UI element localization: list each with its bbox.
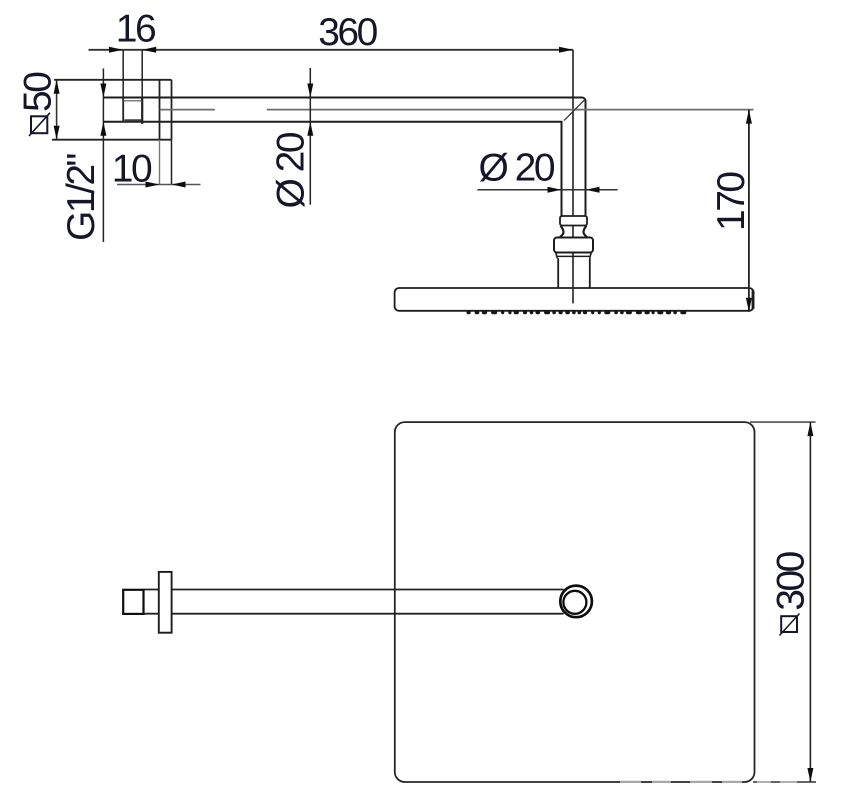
- svg-text:G1/2": G1/2": [60, 153, 103, 241]
- arrow pipe dia20 right: [586, 187, 600, 193]
- head plan outline: [395, 422, 755, 782]
- nipple left face: [122, 98, 124, 122]
- arm centerline dash 2: [267, 109, 754, 111]
- extension line nipple left face: [122, 50, 124, 98]
- nipple inner top line: [123, 100, 142, 102]
- dimension line 16/360: [89, 49, 574, 51]
- svg-text:360: 360: [318, 11, 377, 54]
- arrow 170 bottom: [746, 298, 752, 312]
- arrow dia20 bottom: [307, 122, 313, 136]
- 10 dimension line: [117, 184, 201, 186]
- connector neck left: [560, 226, 564, 238]
- arrow 10 right: [172, 182, 186, 188]
- square symbol for 50: [31, 116, 47, 133]
- plan nipple square end: [123, 590, 143, 614]
- shower head slab side view: [395, 288, 754, 311]
- dia50 dimension line: [56, 80, 58, 140]
- pipe centerline inside head slab: [572, 288, 574, 303]
- connector neck right: [584, 226, 588, 238]
- arrow dia50 top: [54, 80, 60, 94]
- G1/2 dimension line: [102, 69, 104, 243]
- dia300 top extension: [750, 421, 816, 423]
- connector washer line: [557, 255, 590, 257]
- 170 dimension line: [748, 110, 750, 312]
- plan outlet inner circle: [563, 591, 586, 614]
- dia20 pipe dimension line: [477, 189, 617, 191]
- extension line 360 right / pipe centerline vertical: [572, 50, 574, 304]
- arrow dia50 bottom: [54, 126, 60, 140]
- nozzle teeth: [467, 310, 687, 314]
- watermark light patches on bottom edge: [620, 781, 742, 783]
- svg-text:16: 16: [116, 7, 155, 50]
- elbow miter line: [564, 100, 585, 121]
- dia50 bottom extension and flange bottom edge: [52, 139, 172, 141]
- arrow dia20 top: [307, 84, 313, 98]
- dia300 bottom extension: [753, 781, 816, 783]
- arrow 16 right / 360 left: [142, 47, 156, 53]
- svg-text:50: 50: [17, 72, 60, 112]
- arrow 10 left: [146, 182, 160, 188]
- arrow G1/2 bottom: [100, 122, 106, 136]
- plan outlet outer circle: [560, 586, 592, 618]
- flange left face: [159, 80, 161, 140]
- arm tube top edge and pipe right edge: [104, 98, 586, 217]
- arm centerline dash 1: [160, 109, 215, 111]
- flange left face extension gray: [159, 140, 161, 185]
- square symbol for 300: [781, 616, 797, 632]
- dia300 dimension line: [809, 422, 811, 782]
- connector collar: [560, 216, 587, 226]
- svg-text:Ø 20: Ø 20: [479, 146, 555, 189]
- arrow pipe dia20 left: [548, 187, 562, 193]
- dia20 arm dimension line: [309, 68, 311, 205]
- connector neck bottom line: [559, 237, 589, 239]
- arrow 170 top: [746, 110, 752, 124]
- arrow dia300 top: [807, 422, 813, 436]
- nipple right face: [141, 98, 143, 124]
- head slab right end cap thick edge: [752, 291, 755, 310]
- dia50 top extension and flange top edge: [54, 79, 171, 81]
- connector washer sides: [556, 253, 591, 259]
- arm tube bottom edge and pipe left edge: [104, 122, 562, 216]
- svg-text:170: 170: [710, 172, 753, 231]
- arrow 16 left: [109, 47, 123, 53]
- extension line nipple right face upper: [141, 50, 143, 98]
- svg-text:10: 10: [112, 148, 152, 191]
- plan wall flange: [159, 572, 172, 633]
- arrow 360 right: [559, 47, 573, 53]
- flange right face: [171, 80, 173, 140]
- plan arm tube: [144, 590, 564, 614]
- arrow G1/2 top: [100, 84, 106, 98]
- flange right face extension: [171, 140, 173, 185]
- nipple inner bottom line: [125, 119, 142, 121]
- connector lower cylinder: [558, 258, 590, 288]
- arrow dia300 bottom: [807, 768, 813, 782]
- svg-text:300: 300: [770, 551, 813, 610]
- svg-text:Ø 20: Ø 20: [270, 132, 313, 208]
- connector nut: [554, 238, 593, 253]
